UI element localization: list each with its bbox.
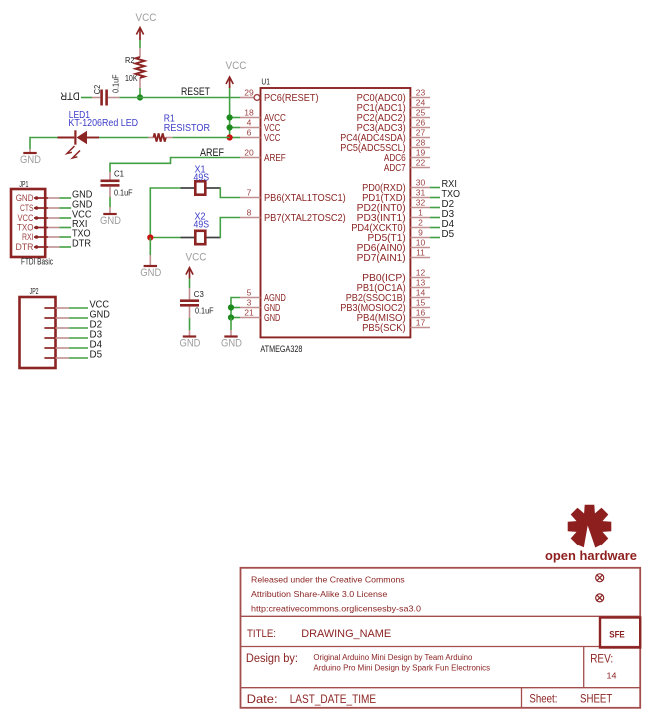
pin 6 VCC — [240, 128, 281, 144]
svg-text:30: 30 — [416, 178, 426, 188]
svg-text:GND: GND — [20, 154, 41, 166]
pin of JP2 / net D4 — [44, 339, 102, 351]
pin 5 AGND — [240, 288, 286, 304]
svg-text:8: 8 — [247, 208, 252, 218]
wire X2 bus to GND — [149, 238, 151, 256]
svg-text:Original Arduino Mini Design b: Original Arduino Mini Design by Team Ard… — [313, 653, 473, 662]
ground GND below C1 — [100, 214, 121, 227]
pin of JP2 / net D2 — [44, 319, 102, 331]
svg-text:VCC: VCC — [264, 132, 281, 144]
svg-text:Sheet:: Sheet: — [529, 692, 557, 706]
pin RXI of JP1 — [22, 232, 48, 243]
pin TXO of JP1 — [17, 222, 48, 233]
svg-text:Date:: Date: — [247, 692, 278, 706]
capacitor C3 0.1uF — [180, 289, 214, 316]
connector JP2 — [20, 287, 56, 368]
wire / net label D2 — [430, 198, 454, 210]
svg-text:14: 14 — [416, 288, 426, 298]
wire / net label TXO — [430, 188, 460, 200]
wire / net label TXO — [48, 228, 91, 240]
power VCC symbol above C3 — [186, 252, 207, 279]
capacitor C1 plates — [101, 169, 133, 198]
wire / net label DTR — [48, 238, 91, 250]
svg-text:PD7(AIN1): PD7(AIN1) — [357, 252, 406, 264]
svg-text:Released under the Creative Co: Released under the Creative Commons — [251, 574, 405, 584]
title block frame — [241, 568, 641, 708]
pin 17 PB5(SCK) — [362, 318, 430, 334]
pin 12 PB0(ICP) — [362, 268, 430, 284]
svg-text:KT-1206Red LED: KT-1206Red LED — [68, 118, 138, 129]
svg-text:0.1uF: 0.1uF — [195, 306, 214, 316]
pin 4 VCC — [240, 118, 281, 134]
pin 3 GND — [240, 298, 281, 314]
svg-text:U1: U1 — [261, 78, 270, 87]
wire / net label D4 — [430, 218, 454, 230]
svg-text:RESET: RESET — [181, 86, 210, 98]
svg-text:D5: D5 — [90, 349, 103, 361]
svg-text:3: 3 — [247, 298, 252, 308]
pin 9 PD5(T1) — [368, 228, 430, 244]
wire X2 left — [150, 237, 180, 239]
wire VCC to R2 — [139, 40, 141, 48]
svg-text:26: 26 — [416, 118, 426, 128]
capacitor C1 0.1uF — [109, 172, 111, 180]
capacitor C2 0.1uF (horizontal) — [92, 74, 121, 105]
svg-text:2: 2 — [418, 218, 423, 228]
pin 2 PD4(XCKT0) — [351, 218, 430, 234]
pin 8 PB7(XTAL2TOSC2) — [240, 208, 346, 224]
svg-text:5: 5 — [247, 288, 252, 298]
svg-text:ATMEGA328: ATMEGA328 — [260, 344, 302, 354]
LED LED1 KT-1206Red LED — [58, 110, 139, 158]
pin 10 PD6(AIN0) — [357, 238, 430, 254]
svg-text:PC6(RESET): PC6(RESET) — [264, 92, 319, 104]
svg-text:Design by:: Design by: — [246, 653, 298, 665]
wire / net label GND — [48, 199, 93, 211]
open hardware (OSHW) logo — [545, 505, 637, 563]
wire VCC to C3 — [189, 279, 191, 289]
pin 24 PC1(ADC1) — [357, 98, 430, 114]
svg-text:C1: C1 — [114, 169, 124, 179]
svg-text:JP2: JP2 — [30, 287, 39, 296]
svg-text:10: 10 — [416, 238, 426, 248]
circle-x symbol 2 — [596, 594, 604, 602]
wire / net label GND — [48, 189, 93, 201]
pin 21 GND — [240, 308, 281, 324]
pin 22 ADC7 — [384, 158, 430, 174]
pin of JP2 / net D5 — [44, 349, 102, 361]
svg-text:GND: GND — [180, 338, 201, 350]
svg-text:Attribution Share-Alike 3.0 Li: Attribution Share-Alike 3.0 License — [251, 589, 388, 599]
pin 14 PB2(SSOC1B) — [346, 288, 430, 304]
pin 18 AVCC — [240, 108, 286, 124]
TITLE row — [247, 628, 391, 640]
SFE box — [600, 618, 640, 648]
svg-text:49S: 49S — [194, 173, 210, 184]
pin VCC of JP1 — [18, 213, 49, 224]
svg-text:19: 19 — [416, 148, 426, 158]
svg-text:D5: D5 — [442, 228, 455, 240]
wire bus to pin 21 — [231, 317, 240, 319]
power VCC symbol near U1 — [226, 60, 247, 88]
wire VCC rail vertical — [229, 88, 231, 138]
pin 31 PD1(TXD) — [362, 188, 430, 204]
wire LED1 to R1 — [99, 137, 149, 139]
wire / net label RXI — [430, 178, 457, 190]
pin DTR of JP1 — [16, 242, 49, 253]
pin CTS of JP1 — [20, 203, 48, 214]
pin 26 PC3(ADC3) — [357, 118, 430, 134]
svg-text:GND: GND — [264, 312, 281, 324]
license text — [251, 574, 421, 613]
svg-text:SFE: SFE — [609, 629, 625, 640]
svg-text:16: 16 — [416, 308, 426, 318]
pin 28 PC5(ADC5SCL) — [340, 138, 430, 154]
wire VCC to pin 4 — [230, 127, 240, 129]
svg-text:49S: 49S — [194, 220, 210, 231]
svg-text:32: 32 — [416, 198, 426, 208]
IC U1 ATMEGA328 body — [261, 88, 411, 337]
junction X2 bus (red) — [147, 234, 153, 240]
date row — [247, 692, 613, 706]
pin 23 PC0(ADC0) — [357, 88, 430, 104]
svg-text:PB7(XTAL2TOSC2): PB7(XTAL2TOSC2) — [264, 212, 346, 224]
svg-text:DTR: DTR — [72, 238, 91, 250]
wire R2 to RESET net — [139, 88, 141, 98]
crystal X1 49S — [181, 181, 221, 194]
pin 19 ADC6 — [384, 148, 430, 164]
pin 16 PB4(MISO) — [357, 308, 430, 324]
svg-text:11: 11 — [416, 248, 425, 258]
svg-text:JP1: JP1 — [19, 180, 28, 189]
wire VCC to pin 6 — [230, 137, 240, 139]
pin GND of JP1 — [16, 193, 48, 204]
svg-text:DTR: DTR — [16, 242, 34, 253]
wire RESET net — [120, 97, 241, 99]
svg-text:open hardware: open hardware — [545, 549, 637, 563]
wire bus to pin 3 — [231, 307, 240, 309]
junction VCC pin4 — [227, 124, 233, 130]
svg-text:Arduino Pro Mini Design by Spa: Arduino Pro Mini Design by Spark Fun Ele… — [313, 664, 490, 673]
connector JP1 FTDI Basic — [11, 180, 53, 267]
design by row — [246, 652, 617, 681]
junction RESET at R2 — [137, 94, 143, 100]
svg-text:REV:: REV: — [590, 652, 613, 666]
junction AGND pin3 — [228, 304, 234, 310]
svg-text:9: 9 — [418, 228, 423, 238]
wire AGND bus pins 5/3/21 — [231, 298, 240, 318]
svg-text:0.1uF: 0.1uF — [114, 188, 133, 198]
svg-text:R2: R2 — [125, 55, 135, 65]
resistor R2 10K — [125, 48, 145, 88]
ground GND below AGND bus — [221, 337, 242, 350]
svg-text:14: 14 — [607, 671, 617, 681]
svg-text:23: 23 — [416, 88, 426, 98]
wire DTR to C2 — [81, 97, 92, 99]
pin of JP2 / net GND — [44, 309, 110, 321]
svg-text:SHEET: SHEET — [580, 692, 613, 706]
pin 7 PB6(XTAL1TOSC1) — [240, 188, 346, 204]
svg-text:22: 22 — [416, 158, 426, 168]
svg-text:4: 4 — [247, 118, 252, 128]
svg-text:LAST_DATE_TIME: LAST_DATE_TIME — [290, 692, 376, 706]
svg-text:VCC: VCC — [226, 60, 247, 72]
wire X1 right to pin 7 — [220, 188, 240, 198]
svg-text:GND: GND — [221, 338, 242, 350]
circle-x symbol 1 — [596, 574, 604, 582]
resistor R1 RESISTOR — [149, 114, 211, 142]
svg-text:ADC7: ADC7 — [384, 162, 406, 174]
wire / net label D3 — [430, 208, 454, 220]
svg-text:DRAWING_NAME: DRAWING_NAME — [301, 628, 391, 640]
svg-text:1: 1 — [418, 208, 423, 218]
svg-text:C3: C3 — [194, 289, 204, 299]
wire X1 left to X2 bus — [150, 188, 180, 238]
svg-text:31: 31 — [416, 188, 426, 198]
svg-text:GND: GND — [140, 267, 161, 279]
ground GND below crystal bus — [140, 266, 161, 279]
pin 1 PD3(INT1) — [357, 208, 430, 224]
svg-text:27: 27 — [416, 128, 426, 138]
pin 27 PC4(ADC4SDA) — [340, 128, 430, 144]
ground GND below LED1 — [20, 153, 41, 166]
pin of JP2 / net D3 — [44, 329, 102, 341]
pin 25 PC2(ADC2) — [357, 108, 430, 124]
svg-text:C2: C2 — [92, 85, 102, 95]
svg-text:7: 7 — [247, 188, 252, 198]
svg-text:GND: GND — [100, 215, 121, 227]
pin 29 PC6(RESET) — [240, 88, 319, 104]
wire AGND bus down — [230, 318, 232, 331]
pin 15 PB3(MOSIOC2) — [340, 298, 430, 314]
svg-text:12: 12 — [416, 268, 426, 278]
pin 13 PB1(OC1A) — [357, 278, 430, 294]
svg-text:AREF: AREF — [264, 152, 286, 164]
wire / net label VCC — [48, 209, 92, 221]
svg-text:VCC: VCC — [136, 12, 157, 24]
svg-text:VCC: VCC — [186, 252, 207, 264]
svg-text:PB5(SCK): PB5(SCK) — [362, 322, 406, 334]
svg-text:13: 13 — [416, 278, 426, 288]
junction VCC pin6 (red) — [227, 134, 233, 140]
svg-text:15: 15 — [416, 298, 426, 308]
svg-text:10K: 10K — [125, 73, 138, 83]
wire R1 to VCC rail — [173, 137, 230, 139]
wire AREF pin20 to C1 — [110, 158, 240, 173]
wire C3 to GND — [189, 318, 191, 330]
junction AGND pin21 — [228, 314, 234, 320]
power VCC symbol above R2 — [136, 12, 157, 40]
ground GND below C3 — [180, 337, 201, 350]
svg-text:28: 28 — [416, 138, 426, 148]
svg-text:FTDI Basic: FTDI Basic — [21, 257, 53, 267]
svg-text:17: 17 — [416, 318, 426, 328]
wire LED1 anode to GND — [30, 138, 58, 150]
svg-text:29: 29 — [244, 88, 254, 98]
crystal X2 49S — [181, 231, 221, 244]
wire C1 to GND — [109, 197, 111, 207]
pin of JP2 / net VCC — [44, 299, 109, 311]
svg-text:DTR: DTR — [60, 90, 80, 102]
svg-text:24: 24 — [416, 98, 426, 108]
svg-text:AREF: AREF — [200, 147, 224, 159]
svg-text:0.1uF: 0.1uF — [111, 74, 121, 93]
pin 30 PD0(RXD) — [362, 178, 430, 194]
junction VCC pin18 — [227, 114, 233, 120]
svg-text:http:creativecommons.orglicens: http:creativecommons.orglicensesby-sa3.0 — [251, 603, 421, 613]
svg-text:6: 6 — [247, 128, 252, 138]
wire VCC to pin 18 — [230, 117, 240, 119]
svg-text:20: 20 — [244, 148, 254, 158]
svg-text:PB6(XTAL1TOSC1): PB6(XTAL1TOSC1) — [264, 192, 346, 204]
pin 11 PD7(AIN1) — [357, 248, 430, 264]
wire pin 8 to X2 right — [220, 218, 240, 238]
pin 32 PD2(INT0) — [357, 198, 430, 214]
wire / net label RXI — [48, 218, 87, 230]
pin 20 AREF — [240, 148, 286, 164]
svg-text:TITLE:: TITLE: — [247, 628, 276, 640]
svg-text:18: 18 — [244, 108, 254, 118]
svg-text:RESISTOR: RESISTOR — [164, 123, 210, 134]
svg-text:25: 25 — [416, 108, 426, 118]
wire / net label D5 — [430, 228, 454, 240]
svg-text:21: 21 — [244, 308, 254, 318]
